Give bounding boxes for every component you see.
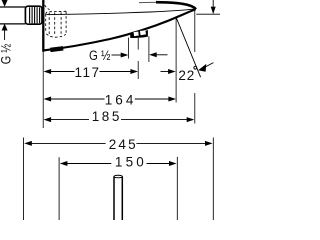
outlet bracket (black, with two windows)	[130, 30, 148, 38]
outlet centerline segments	[137, 38, 139, 50]
plate right edge	[212, 138, 214, 221]
150 extension left	[58, 157, 60, 220]
wall line (thick vertical)	[42, 0, 44, 52]
G 1/2 vertical dimension at far left: down arrow	[2, 0, 8, 7]
plate left edge	[23, 138, 25, 221]
dimension 150 row	[60, 161, 68, 166]
22 deg: diagonal line	[176, 18, 200, 77]
dimension 164 row	[44, 97, 52, 102]
wall extension line (thin, below wall)	[42, 52, 44, 128]
dimension 117 row	[44, 69, 52, 74]
outlet extension lines	[128, 38, 130, 59]
top-right reference line and down arrow	[196, 13, 220, 15]
hidden internal body (dashed)	[45, 5, 67, 37]
dimension 245 row	[24, 141, 32, 146]
22 deg: leader arrow	[206, 63, 214, 67]
spout bar (front view)	[114, 175, 122, 220]
spout top edge (thin line A)	[46, 9, 195, 15]
svg-text:22: 22	[178, 68, 195, 83]
G 1/2 vertical dimension: up arrow with shaft	[2, 24, 8, 31]
svg-text:164: 164	[105, 92, 137, 107]
supply pipe (side view, top-left)	[0, 7, 25, 24]
threaded fitting G1/2 (hatched block)	[25, 6, 42, 24]
extension line for 185 (tip), with gap at 22deg text	[194, 10, 196, 53]
dimension 185 row	[44, 117, 52, 122]
svg-text:G ½: G ½	[0, 44, 13, 65]
svg-text:150: 150	[115, 154, 147, 169]
black bump near wall on bottom curve	[50, 48, 63, 50]
svg-text:117: 117	[75, 65, 101, 80]
spout upper lip curve (B) near tip	[139, 1, 160, 3]
extension line for 164 (spout end)	[175, 18, 177, 103]
spout bottom curve (C)	[43, 9, 195, 50]
22 deg: arrow to vertical extension line	[161, 71, 170, 73]
150 extension right	[176, 157, 178, 220]
svg-text:G ½: G ½	[89, 48, 110, 63]
svg-text:245: 245	[109, 137, 138, 152]
svg-text:185: 185	[92, 109, 122, 124]
